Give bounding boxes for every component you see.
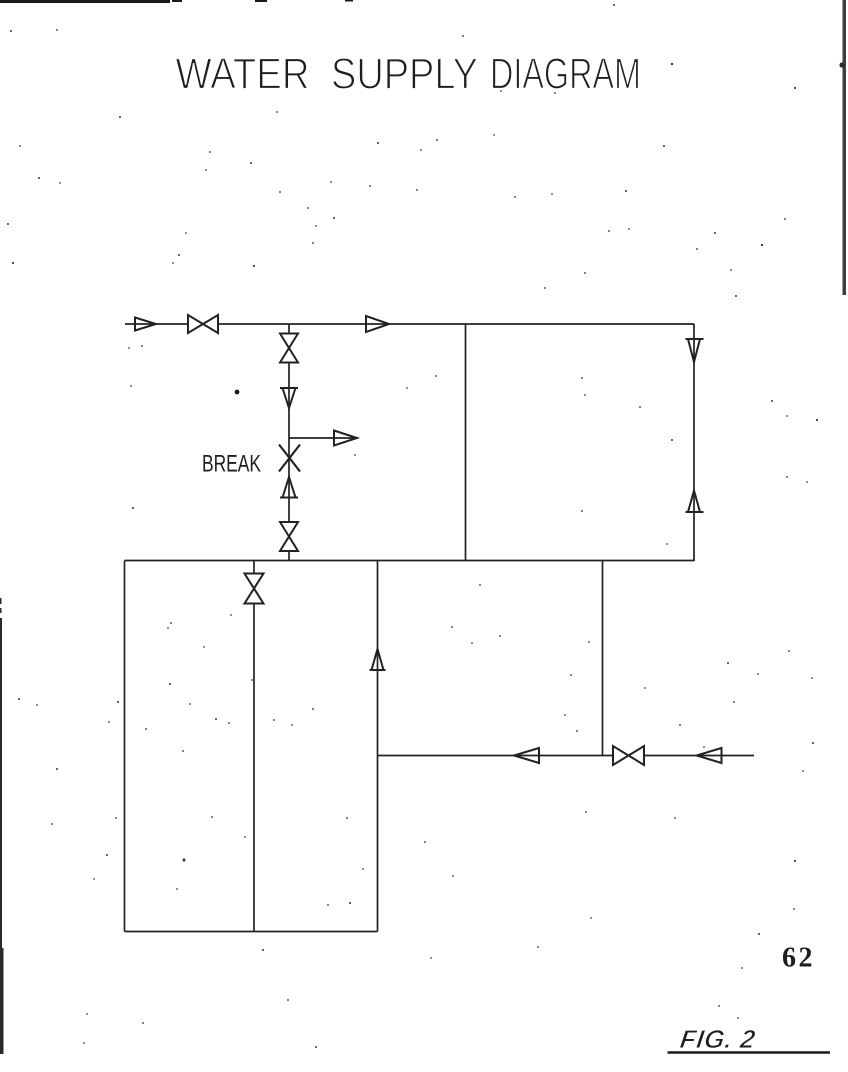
break valve X — [279, 445, 300, 472]
scan artifact: right edge strip — [839, 0, 846, 295]
caption underline — [668, 1051, 831, 1054]
pipe: middle riser — [465, 324, 467, 561]
flow arrow up on right riser — [686, 491, 704, 513]
scan artifact: top edge strip — [0, 0, 353, 3]
pipe: right riser — [693, 324, 695, 561]
pipe: lower-left tank bottom side — [125, 931, 378, 933]
gate valve V5 on lower return line — [613, 746, 644, 765]
svg-text:WATER: WATER — [176, 50, 310, 99]
svg-text:DIAGRAM: DIAGRAM — [490, 50, 641, 99]
pipe: lower return line — [378, 755, 755, 757]
pipe: lower-left tank right riser — [377, 561, 379, 932]
gate valve V1 on top header — [188, 315, 218, 333]
pipe: top supply header — [125, 323, 694, 325]
flow arrow left on lower line (right) — [697, 748, 722, 763]
flow arrow right at break branch — [334, 431, 357, 446]
pipe: break riser — [288, 324, 290, 561]
flow arrow up on break riser — [280, 477, 298, 498]
pipe: middle header — [125, 560, 695, 562]
pipe: branch to arrow at break — [289, 437, 356, 439]
gate valve V2 on break riser (upper) — [280, 334, 298, 363]
pipe: inner riser of tank — [253, 561, 255, 932]
svg-text:BREAK: BREAK — [202, 451, 261, 478]
gate valve V3 on break riser (lower) — [280, 522, 298, 551]
scan artifact: left edge strip — [0, 598, 4, 1054]
pipe: lower-left tank left side — [124, 561, 126, 932]
flow arrow right on top header (inlet) — [135, 318, 156, 331]
flow arrow left on lower line (left) — [514, 748, 539, 763]
gate valve V4 on inner tank riser — [245, 574, 264, 604]
flow arrow down on break riser — [280, 388, 298, 408]
svg-text:SUPPLY: SUPPLY — [331, 50, 478, 99]
flow arrow down on right riser — [686, 339, 704, 362]
title: WATER SUPPLY DIAGRAM — [176, 50, 642, 99]
flow arrow up on tank right riser — [370, 649, 386, 670]
pipe: right drop to lower line — [602, 561, 604, 756]
svg-text:FIG. 2: FIG. 2 — [678, 1024, 757, 1054]
svg-text:62: 62 — [782, 943, 815, 974]
flow arrow right on top header (mid) — [366, 316, 389, 332]
